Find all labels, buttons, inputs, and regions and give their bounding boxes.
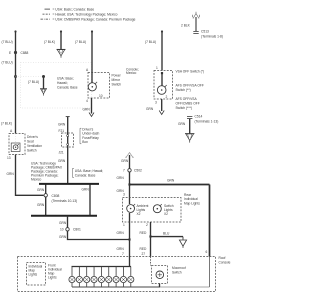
svg-text:Box: Box [82,140,88,144]
wire right vertical to roof console [209,185,211,257]
wire horizontal to roof console right [130,184,210,186]
wire under-dash fuse column [67,117,69,133]
svg-text:(7 BLU): (7 BLU) [145,40,156,44]
dotted option branch wire [16,76,44,78]
svg-text:Lights: Lights [48,276,57,280]
svg-text:1: 1 [123,223,125,227]
svg-text:(Terminals 1-8): (Terminals 1-8) [201,35,223,39]
svg-text:BLU: BLU [163,232,170,236]
page arrow down W4 [159,111,164,115]
svg-text:C502: C502 [134,169,142,173]
note Canada Mexico [126,67,139,75]
connector C888 [9,51,28,55]
svg-text:Ventilation: Ventilation [27,144,42,148]
svg-text:GRN: GRN [82,188,90,192]
svg-text:13: 13 [7,156,11,160]
switch lights label [164,204,174,216]
svg-text:GRN: GRN [59,235,67,239]
svg-text:2: 2 [166,95,168,99]
under-dash fuse box [62,133,74,147]
svg-text:Power: Power [112,74,122,78]
moonroof switch ground tick [159,284,161,288]
wire red column from rear map lights [150,222,152,257]
front map lamp 5 [98,267,104,288]
svg-text:Seat: Seat [27,140,34,144]
wire W1 main left vertical [14,30,16,133]
svg-text:Mexico: Mexico [31,178,41,182]
ambient lights label [137,204,149,216]
bus bar [31,215,97,217]
svg-text:(7 BLU): (7 BLU) [2,40,13,44]
wire W3 to power mirror switch [91,30,93,72]
svg-text:Lights: Lights [29,273,38,277]
ground G big [185,134,194,143]
page arrow down BLU open triangle [179,237,186,248]
svg-text:GRN: GRN [59,221,67,225]
svg-text:3: 3 [155,101,157,105]
wire mid column down to roof console [129,155,131,204]
ground G W2 [57,49,66,57]
wire option drop to C808 [45,184,47,216]
svg-text:Individual: Individual [184,197,198,201]
svg-text:Roof: Roof [219,256,226,260]
svg-text:Rear: Rear [184,193,192,197]
ground G branch [40,89,47,96]
svg-text:(7 BLK): (7 BLK) [44,40,55,44]
page arrow up roof console feed [125,153,134,158]
branch wire to ground [43,77,45,89]
wire below vent switch down and right to C808 [16,155,44,196]
wire branch BLU [151,236,184,238]
svg-text:Switch (**): Switch (**) [176,88,191,92]
moonroof switch label [172,266,186,275]
connector C502 ring [128,169,131,172]
node junction mid [128,183,130,185]
front map lamp 3 [84,267,90,288]
svg-text:7: 7 [122,252,124,256]
wire C514 to ground [189,119,191,134]
front map lamp 2 [76,267,82,288]
svg-text:AFS OFF/VSA OFF: AFS OFF/VSA OFF [176,84,204,88]
connector C801 ring [66,228,69,231]
label C514 [195,115,219,124]
svg-text:GRN: GRN [37,188,45,192]
svg-text:10: 10 [99,94,103,98]
option region dotted box USA Base Hawaii Canada Base [21,63,92,109]
upper bus bar [39,183,99,185]
driver's seat ventilation switch label [27,135,42,153]
front map lamp 4 [91,267,97,288]
svg-text:J21: J21 [59,151,64,155]
label driver's under-dash fuse/relay box [80,128,99,145]
svg-text:X2: X2 [137,212,141,216]
svg-text:GRN: GRN [83,108,91,112]
svg-text:C514: C514 [195,115,203,119]
power mirror switch label [112,74,122,87]
svg-text:USA: Base;: USA: Base; [57,77,74,81]
svg-text:OFF/CMBS OFF: OFF/CMBS OFF [176,102,200,106]
svg-text:USA: Base; Hawaii;: USA: Base; Hawaii; [75,169,103,173]
svg-text:GRN: GRN [121,159,129,163]
wire below power mirror switch [91,98,93,114]
individual map lights label [29,265,43,277]
svg-text:Driver's: Driver's [27,135,38,139]
svg-text:Switch: Switch [172,270,182,274]
svg-text:C801: C801 [73,228,81,232]
legend line solid [45,7,95,11]
svg-text:(7 BLU): (7 BLU) [2,61,13,65]
driver's seat ventilation switch box [9,134,25,155]
label C808 [52,194,78,203]
wire bus to C801 and right [68,216,130,240]
option note USA Technology CMBS/PAX [31,162,63,182]
front individual map lights label [48,264,62,280]
svg-text:GRN: GRN [117,247,125,251]
svg-text:Console: Console [219,260,231,264]
svg-text:GRN: GRN [58,123,66,127]
svg-text:(Terminals 10-13): (Terminals 10-13) [52,199,78,203]
ambient lights lamp [127,204,135,212]
node junction on branch [42,75,45,78]
svg-text:Canada: Base: Canada: Base [75,173,96,177]
svg-text:Map Lights: Map Lights [184,202,200,206]
VSA OFF switch labels [176,70,205,111]
svg-text:C513: C513 [201,30,209,34]
svg-text:(Terminals 1-13): (Terminals 1-13) [195,120,219,124]
front map lamp 1 [69,267,75,288]
VSA OFF switch box U2 [154,71,173,100]
svg-text:Mexico: Mexico [126,71,136,75]
roof console label [219,256,231,265]
individual map lights inner box [27,263,46,286]
svg-text:RED: RED [140,231,148,235]
node junction lower mid [128,238,130,240]
rear individual map lights label [184,193,200,206]
svg-text:AFS OFF/VSA: AFS OFF/VSA [176,97,198,101]
wire under-dash fuse to upper bus [67,147,69,184]
wire option drop right [89,184,91,216]
option note USA: Base; Hawaii; Canada: Base [57,77,78,90]
wire W4 to VSA OFF switch [161,30,163,70]
lamp bottom rail [72,286,160,288]
svg-text:1: 1 [156,66,158,70]
svg-text:= Hawaii; USA: Technology Pack: = Hawaii; USA: Technology Package; Mexic… [53,12,118,16]
svg-text:= USA: Basic; Canada: Base: = USA: Basic; Canada: Base [53,7,95,11]
legend line dash-dot [41,17,136,21]
legend line dashed [43,12,118,16]
page arrow up C513 wire [193,12,200,19]
svg-text:GRN: GRN [146,107,154,111]
wire entry into roof console box [129,257,131,267]
svg-text:= USA: CMBS/PAX Package; Canad: = USA: CMBS/PAX Package; Canada: Premium… [53,17,136,21]
wire W2 short to ground [60,30,62,49]
svg-text:F21: F21 [59,129,65,133]
page arrow down W3 [89,113,94,117]
svg-text:7: 7 [123,169,125,173]
svg-text:3: 3 [123,193,125,197]
connector C513 double tick [193,31,198,33]
power mirror switch box [88,73,110,99]
svg-text:Switch: Switch [27,149,37,153]
node junction on W1 [14,75,17,78]
svg-text:GRN: GRN [117,176,125,180]
svg-text:GRN: GRN [117,231,125,235]
wire roof console inner right drop [209,257,211,288]
svg-text:(7 BLK): (7 BLK) [1,122,12,126]
svg-text:C888: C888 [21,51,29,55]
svg-text:GRN: GRN [37,203,45,207]
lamp top rail [72,266,132,268]
svg-text:10: 10 [60,228,64,232]
svg-text:(7 BLU): (7 BLU) [75,40,86,44]
svg-text:2 BLK: 2 BLK [181,24,191,28]
svg-text:RED: RED [140,247,148,251]
front map lamp 9 [128,267,134,288]
under-dash fuse wire top tick [66,116,70,118]
moonroof switch wire entry [150,257,152,266]
svg-text:C808: C808 [52,194,60,198]
label C513 [201,30,223,39]
moonroof switch box [152,266,168,284]
svg-text:6: 6 [206,250,208,254]
svg-text:GRN: GRN [58,159,66,163]
moonroof switch lamp [156,271,164,279]
svg-text:GRN: GRN [167,179,175,183]
wire below VSA OFF switch [161,99,163,111]
wire W5 to C513 [195,17,197,31]
svg-text:Hawaii;: Hawaii; [57,81,68,85]
svg-text:Moonroof: Moonroof [172,266,186,270]
svg-text:VSA OFF Switch (*): VSA OFF Switch (*) [176,70,205,74]
switch lights lamp [153,204,162,213]
svg-text:Canada: Base: Canada: Base [57,86,78,90]
svg-text:Mirror: Mirror [112,78,121,82]
front map lamp 6 [106,267,112,288]
front map lamp 7 [113,267,119,288]
svg-text:GRN: GRN [178,122,186,126]
svg-text:2: 2 [146,223,148,227]
front map lamp 8 [120,267,126,288]
VSA OFF switch lamp [157,85,167,99]
svg-text:4: 4 [86,99,88,103]
svg-text:X2: X2 [164,212,168,216]
roof console box [18,257,216,292]
svg-text:(7 BLU): (7 BLU) [28,80,39,84]
power mirror switch lamp [88,82,103,98]
option note USA Base Hawaii Canada Base right [73,168,104,177]
svg-text:GRN: GRN [7,172,15,176]
connector C514 double tick [187,116,192,118]
connector C808 ring [44,194,47,197]
node junction red [149,235,151,237]
svg-text:27: 27 [142,252,146,256]
svg-text:Switch: Switch [112,83,122,87]
rear individual map lights box [123,198,182,223]
svg-text:Switch (***): Switch (***) [176,106,192,110]
